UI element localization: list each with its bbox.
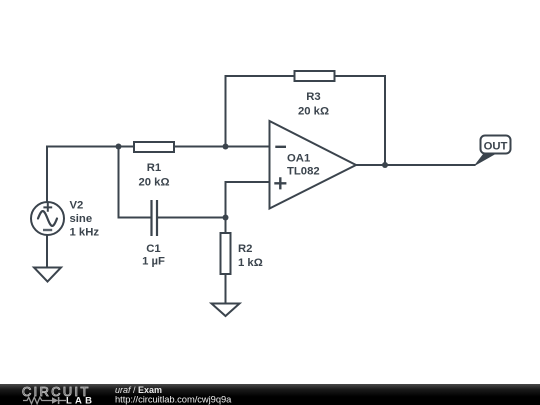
wire V2 bottom to ground <box>46 235 48 268</box>
wire main horizontal to R1 <box>46 146 133 148</box>
svg-text:OUT: OUT <box>484 141 508 153</box>
label R3 <box>306 91 320 103</box>
resistor R3 <box>295 71 335 81</box>
svg-text:R3: R3 <box>306 91 320 103</box>
wire R2 bottom to ground <box>225 274 227 303</box>
svg-text:http://circuitlab.com/cwj9q9a: http://circuitlab.com/cwj9q9a <box>115 394 232 405</box>
CircuitLab logo LAB text <box>66 396 95 405</box>
label C1 <box>146 243 160 255</box>
output flag OUT <box>475 136 510 165</box>
label R1 value 20 kOhm <box>138 177 169 189</box>
label V2 <box>70 200 84 212</box>
svg-text:sine: sine <box>70 213 93 225</box>
svg-text:C1: C1 <box>146 243 160 255</box>
svg-text:20 kΩ: 20 kΩ <box>138 177 169 189</box>
wire node to R2 top <box>225 218 227 234</box>
label R2 value 1 kOhm <box>238 257 263 269</box>
label C1 value 1 uF <box>142 256 165 268</box>
svg-text:LAB: LAB <box>66 396 95 405</box>
label TL082 <box>287 166 320 178</box>
node B junction R1/R3/minus input <box>223 144 229 150</box>
wire C1 right to node <box>158 217 226 219</box>
ground below V2 <box>34 268 61 282</box>
svg-text:1 kHz: 1 kHz <box>70 227 100 239</box>
op-amp OA1 <box>270 121 357 209</box>
label V2 type sine <box>70 213 93 225</box>
label V2 frequency 1 kHz <box>70 227 100 239</box>
label R1 <box>147 162 161 174</box>
CircuitLab logo resistor zigzag and diode <box>23 397 66 404</box>
label R2 <box>238 243 252 255</box>
footer url <box>115 394 232 405</box>
svg-text:20 kΩ: 20 kΩ <box>298 106 329 118</box>
wire C1 left branch <box>119 147 151 218</box>
svg-text:TL082: TL082 <box>287 166 320 178</box>
ground below R2 <box>212 304 240 317</box>
op-amp minus input sign <box>275 146 286 148</box>
svg-text:R1: R1 <box>147 162 161 174</box>
wire R3 right leg <box>335 76 385 165</box>
wire R1 to op-amp minus input <box>174 146 269 148</box>
svg-text:R2: R2 <box>238 243 252 255</box>
label R3 value 20 kOhm <box>298 106 329 118</box>
svg-text:1 kΩ: 1 kΩ <box>238 257 263 269</box>
resistor R2 <box>221 233 231 274</box>
CircuitLab logo CIRCUIT text <box>22 384 91 399</box>
wire plus input branch <box>226 182 270 218</box>
svg-text:OA1: OA1 <box>287 153 310 165</box>
voltage source V2 <box>31 202 64 235</box>
wire op-amp output <box>355 164 476 166</box>
wire V2 top to main line <box>46 147 48 203</box>
wire R3 left leg <box>226 76 295 147</box>
svg-text:1 µF: 1 µF <box>142 256 165 268</box>
node C junction output/R3 <box>382 162 388 168</box>
label OA1 <box>287 153 310 165</box>
capacitor C1 <box>152 200 158 236</box>
footer bar <box>0 384 540 405</box>
footer title uraf / Exam <box>115 385 162 395</box>
resistor R1 <box>134 142 174 152</box>
op-amp plus input sign <box>274 177 286 189</box>
node D junction C1/R2/plus input <box>223 215 229 221</box>
svg-text:V2: V2 <box>70 200 84 212</box>
node A junction R1/V2/C1 <box>116 144 122 150</box>
